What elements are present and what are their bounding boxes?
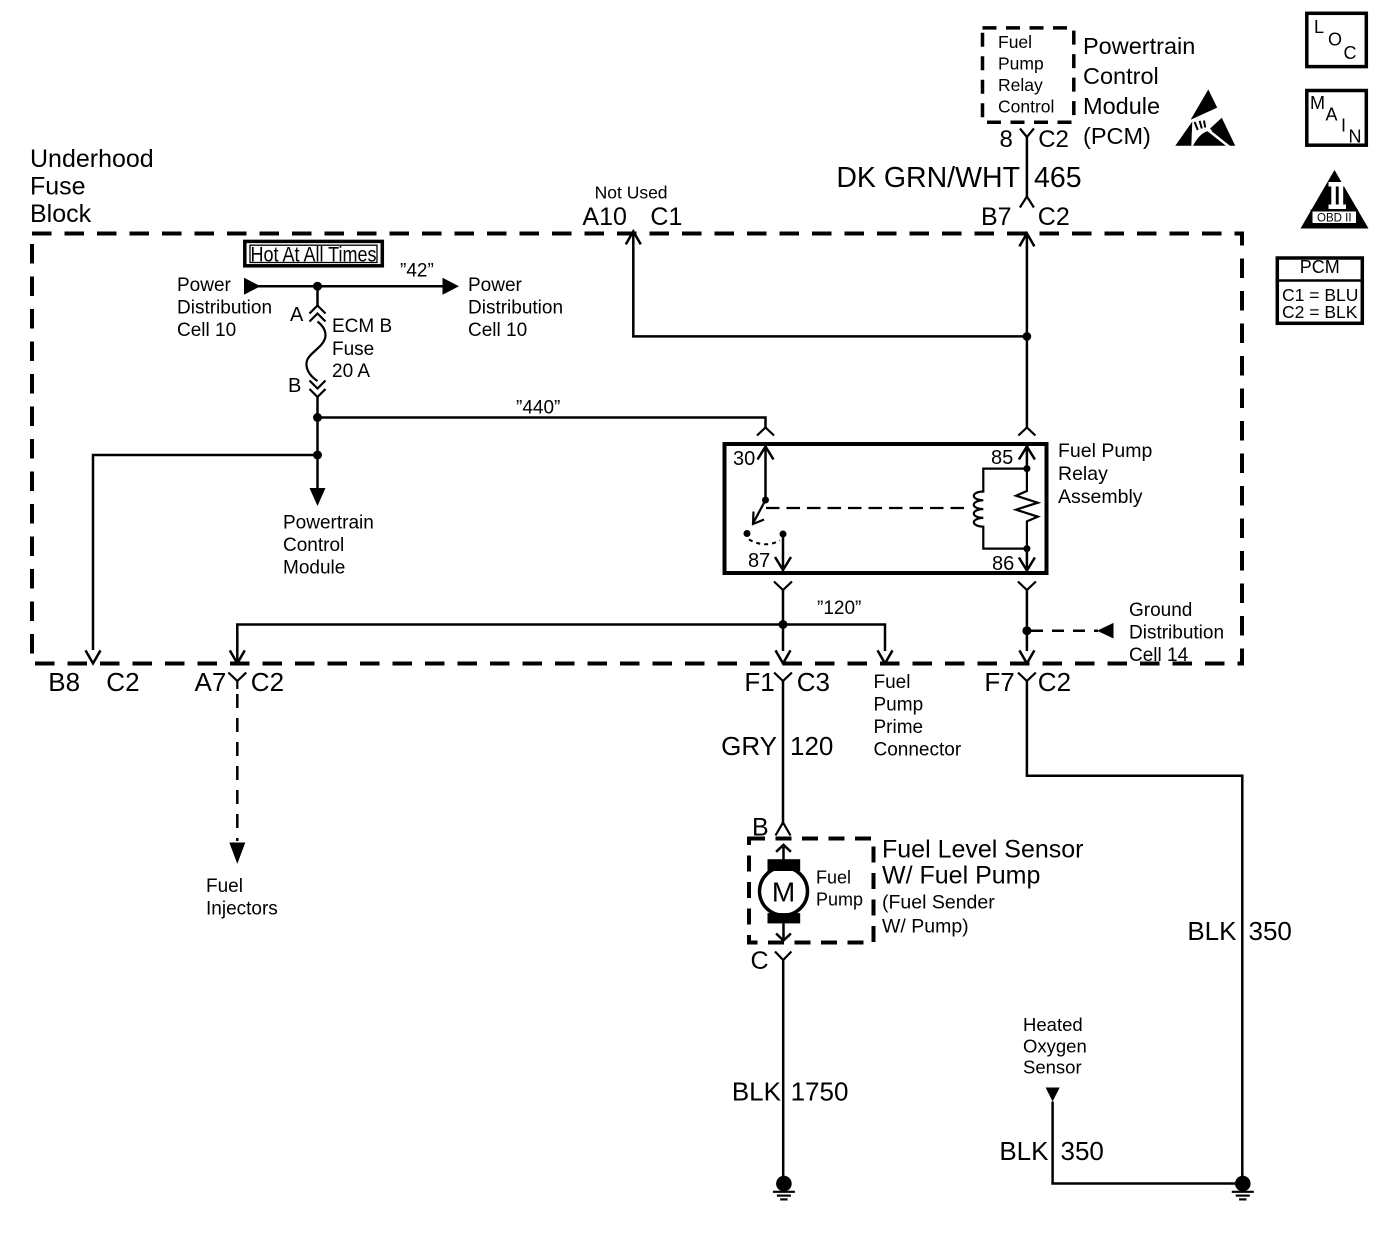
- relay pin 86 arrow (down): [1026, 549, 1029, 568]
- svg-text:Pump: Pump: [874, 695, 924, 716]
- fuse ECM B 20A: element squiggle: [306, 322, 325, 382]
- svg-text:F7: F7: [984, 667, 1014, 697]
- svg-text:465: 465: [1034, 162, 1082, 194]
- svg-text:87: 87: [748, 550, 770, 572]
- svg-text:DK GRN/WHT: DK GRN/WHT: [836, 162, 1020, 194]
- svg-text:Connector: Connector: [874, 740, 962, 761]
- relay: connector chevron above pin 30: [757, 428, 774, 436]
- ESD: hand arm hump: [1193, 131, 1227, 146]
- wire: F7 down, right and down to ground: [1027, 681, 1242, 1177]
- svg-text:”42”: ”42”: [400, 261, 434, 282]
- svg-text:Oxygen: Oxygen: [1023, 1035, 1087, 1056]
- ESD: lower-left triangle: [1175, 122, 1192, 146]
- svg-text:Fuel Level Sensor: Fuel Level Sensor: [882, 836, 1084, 864]
- wire: PCM pin 8 down to B7: [1026, 137, 1029, 197]
- svg-text:Fuel: Fuel: [816, 868, 851, 888]
- svg-text:BLK: BLK: [732, 1077, 782, 1107]
- svg-text:Cell 10: Cell 10: [177, 320, 236, 341]
- svg-text:C2: C2: [1038, 203, 1070, 231]
- junction at "440" branch: [313, 413, 322, 422]
- svg-text:86: 86: [992, 553, 1014, 575]
- svg-text:C2 = BLK: C2 = BLK: [1282, 302, 1358, 322]
- svg-text:Relay: Relay: [1058, 463, 1108, 485]
- relay switch pivot dot: [762, 497, 769, 504]
- svg-text:BLK: BLK: [999, 1136, 1049, 1166]
- relay: connector chevron above pin 85: [1018, 428, 1035, 436]
- svg-text:”440”: ”440”: [516, 398, 560, 419]
- svg-text:C1: C1: [650, 203, 682, 231]
- fuel pump motor: return arrow (down): [782, 923, 785, 938]
- connector arrow F7 (open, down): [1019, 650, 1034, 663]
- wire: HO2S ground lead: [1053, 1102, 1236, 1184]
- svg-text:350: 350: [1249, 916, 1292, 946]
- wire "440" horizontal to relay pin 30: [318, 418, 766, 428]
- dashed wire to Fuel Injectors: [236, 694, 239, 841]
- connector arrow A10 (open, up): [626, 231, 641, 244]
- fuel pump motor: top brush cap: [768, 859, 801, 871]
- svg-text:Underhood: Underhood: [30, 145, 154, 173]
- legend: MAIN box: [1307, 91, 1367, 147]
- svg-text:Assembly: Assembly: [1058, 486, 1143, 508]
- connector arrow B8 (open, down): [86, 650, 101, 663]
- svg-text:ECM B: ECM B: [332, 316, 392, 337]
- wire: relay 86 down to F7: [1026, 590, 1029, 651]
- svg-text:Fuel: Fuel: [206, 876, 243, 897]
- svg-text:Distribution: Distribution: [1129, 623, 1224, 644]
- svg-text:C2: C2: [1038, 126, 1069, 153]
- wire: Not Used branch to A10: [633, 235, 1027, 336]
- svg-text:30: 30: [733, 448, 755, 470]
- svg-text:Pump: Pump: [998, 54, 1044, 74]
- connector arrow B7 (open, up): [1019, 233, 1034, 246]
- relay resistor zigzag: [1016, 469, 1038, 549]
- svg-text:”120”: ”120”: [817, 598, 861, 619]
- dashed link to Ground Distribution: [1031, 629, 1098, 632]
- svg-text:B: B: [288, 375, 301, 397]
- svg-text:OBD II: OBD II: [1317, 213, 1352, 225]
- svg-text:Sensor: Sensor: [1023, 1057, 1082, 1078]
- svg-text:Control: Control: [283, 535, 344, 556]
- fuse ECM B 20A: terminal B chevrons: [310, 381, 326, 389]
- svg-text:C2: C2: [106, 667, 139, 697]
- svg-text:I: I: [1341, 116, 1346, 136]
- relay switch arm: [754, 500, 766, 523]
- ESD: fingers: [1195, 121, 1206, 131]
- svg-text:Fuse: Fuse: [30, 173, 86, 201]
- svg-text:N: N: [1349, 127, 1362, 147]
- svg-text:M: M: [772, 877, 795, 908]
- wire "120" horizontal branch: [237, 625, 885, 664]
- svg-text:C: C: [751, 947, 769, 975]
- relay coil loop: [974, 469, 1027, 549]
- svg-text:Cell 14: Cell 14: [1129, 645, 1189, 666]
- svg-text:A7: A7: [195, 667, 227, 697]
- svg-text:A: A: [1326, 105, 1338, 125]
- svg-text:Hot At All Times: Hot At All Times: [251, 244, 377, 267]
- arrow from Heated Oxygen Sensor (filled, down): [1046, 1088, 1060, 1102]
- connector Y at PCM pin 8: [1020, 129, 1034, 138]
- connector Y at A7: [228, 673, 246, 681]
- fuel pump motor: bottom brush cap: [768, 913, 801, 923]
- svg-text:B7: B7: [981, 203, 1012, 231]
- fuse ECM B 20A: terminal A chevrons: [310, 306, 326, 314]
- svg-text:Distribution: Distribution: [177, 298, 272, 319]
- arrowhead Ground Distribution (filled, left): [1097, 623, 1114, 639]
- relay pin 85 arrow (up): [1026, 447, 1029, 469]
- svg-text:Fuse: Fuse: [332, 339, 374, 360]
- relay: dashed contact throw arc: [749, 540, 780, 545]
- legend: LOC box: [1307, 13, 1367, 66]
- svg-text:20 A: 20 A: [332, 361, 370, 382]
- junction at "120" branch: [779, 620, 788, 629]
- connector arrow A7 (open, down): [230, 650, 245, 663]
- junction to ground distribution: [1022, 626, 1031, 635]
- Underhood Fuse Block dashed boundary box: [32, 234, 1242, 664]
- wire: fuse output down: [316, 397, 319, 490]
- svg-text:Powertrain: Powertrain: [283, 513, 374, 534]
- wire: feed into fuse: [316, 286, 319, 305]
- connector arrow Fuel Pump Prime (open, down): [878, 650, 893, 663]
- svg-text:B8: B8: [48, 667, 80, 697]
- svg-text:W/ Fuel Pump: W/ Fuel Pump: [882, 862, 1040, 890]
- svg-text:BLK: BLK: [1187, 916, 1237, 946]
- connector Y at F7: [1018, 673, 1036, 681]
- ESD sensitivity symbol: [1175, 90, 1235, 150]
- svg-text:Relay: Relay: [998, 75, 1043, 95]
- ESD: top wedge: [1191, 90, 1218, 120]
- junction at fuse top: [313, 282, 322, 291]
- PCM output: Fuel Pump Relay Control dashed box: [983, 28, 1074, 122]
- svg-text:W/ Pump): W/ Pump): [882, 916, 969, 938]
- svg-text:350: 350: [1061, 1136, 1104, 1166]
- svg-text:Block: Block: [30, 200, 92, 228]
- svg-text:Not Used: Not Used: [595, 183, 668, 203]
- svg-text:Fuel: Fuel: [998, 32, 1032, 52]
- wire: relay 87 down to F1: [782, 590, 785, 651]
- arrow to Powertrain Control Module (filled): [310, 488, 326, 506]
- junction at Not Used branch: [1023, 332, 1032, 341]
- svg-text:Control: Control: [998, 97, 1054, 117]
- svg-text:C2: C2: [251, 667, 284, 697]
- svg-text:Heated: Heated: [1023, 1014, 1083, 1035]
- svg-text:GRY: GRY: [721, 731, 777, 761]
- wire: B7 down to relay pin 85: [1026, 235, 1029, 428]
- ground G103 (fuel pump): [773, 1176, 795, 1200]
- wire: battery feed bus "42": [250, 285, 445, 288]
- svg-text:Fuel Pump: Fuel Pump: [1058, 440, 1152, 462]
- svg-text:Power: Power: [468, 275, 523, 296]
- svg-text:C: C: [1344, 43, 1357, 63]
- svg-text:8: 8: [1000, 126, 1013, 153]
- svg-text:Pump: Pump: [816, 889, 863, 909]
- svg-text:(Fuel Sender: (Fuel Sender: [882, 892, 995, 914]
- svg-text:Prime: Prime: [874, 717, 924, 738]
- svg-text:M: M: [1310, 93, 1325, 113]
- fuel pump motor: feed arrow (up): [782, 847, 785, 860]
- svg-text:F1: F1: [744, 667, 774, 697]
- svg-text:120: 120: [790, 731, 833, 761]
- relay pin 87 terminal dot: [780, 531, 787, 538]
- relay coil/resistor top junction: [1023, 465, 1030, 472]
- Fuel Pump Relay Assembly box: [725, 444, 1047, 573]
- relay pin 87 arrow (down): [782, 534, 785, 568]
- wire: F1 down to fuel pump B: [782, 681, 785, 823]
- svg-text:O: O: [1328, 30, 1342, 50]
- svg-text:A: A: [290, 304, 304, 326]
- arrowhead from Power Distribution (left, filled): [244, 278, 261, 295]
- svg-text:Distribution: Distribution: [468, 298, 563, 319]
- fuel pump motor M circle: [760, 867, 808, 915]
- ESD: white separation: [1208, 130, 1232, 149]
- connector Y at F1: [774, 673, 792, 681]
- svg-text:Module: Module: [1083, 93, 1160, 119]
- svg-text:C2: C2: [1038, 667, 1071, 697]
- svg-text:Injectors: Injectors: [206, 899, 278, 920]
- connector arrow F1 (open, down): [776, 650, 791, 663]
- legend: OBD II triangle: [1301, 170, 1369, 229]
- connector chevron at B7: [1020, 197, 1034, 208]
- svg-text:A10: A10: [582, 203, 626, 231]
- arrow to Fuel Injectors (filled): [229, 843, 245, 864]
- relay coil/resistor bottom junction: [1023, 545, 1030, 552]
- svg-text:Ground: Ground: [1129, 600, 1192, 621]
- svg-text:85: 85: [991, 447, 1013, 469]
- svg-text:Power: Power: [177, 275, 232, 296]
- connector Y below relay pin 86: [1018, 582, 1036, 591]
- arrowhead to Power Distribution (right, filled): [443, 278, 460, 295]
- Hot At All Times box: [245, 241, 382, 266]
- svg-text:1750: 1750: [791, 1077, 849, 1107]
- relay pin 30 arrow (up): [764, 447, 767, 500]
- ESD: right wedge: [1210, 118, 1235, 146]
- connector Y below relay pin 87: [774, 582, 792, 591]
- connector Y at pump pin C: [775, 952, 791, 961]
- connector chevron at pump pin B: [776, 823, 791, 836]
- svg-text:L: L: [1314, 17, 1324, 37]
- Fuel Level Sensor W/ Fuel Pump dashed box: [749, 839, 874, 943]
- svg-text:Module: Module: [283, 558, 345, 579]
- relay switch contact dot: [744, 530, 751, 537]
- svg-text:(PCM): (PCM): [1083, 123, 1151, 149]
- wire: left branch to B8: [93, 455, 318, 650]
- relay: dashed actuator link to coil: [766, 507, 966, 509]
- legend: PCM connector color table: [1276, 257, 1365, 323]
- svg-text:Fuel: Fuel: [874, 672, 911, 693]
- svg-text:Control: Control: [1083, 63, 1159, 89]
- junction at left branch: [313, 451, 322, 460]
- ground G (right): [1232, 1176, 1254, 1200]
- svg-text:Cell 10: Cell 10: [468, 320, 527, 341]
- wire: pump C down to ground: [782, 960, 785, 1177]
- svg-text:C3: C3: [797, 667, 830, 697]
- svg-text:Powertrain: Powertrain: [1083, 33, 1195, 59]
- svg-text:PCM: PCM: [1300, 257, 1340, 277]
